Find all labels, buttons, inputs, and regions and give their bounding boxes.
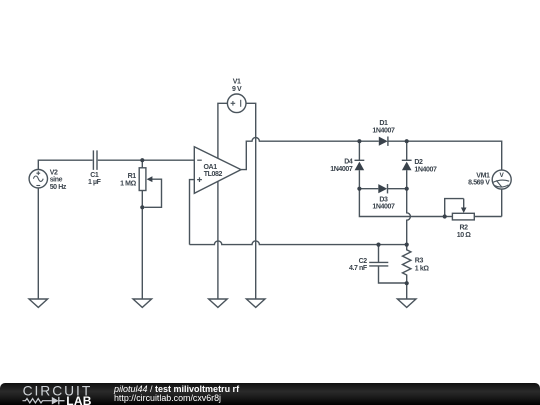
- wire R3 bottom to ground: [406, 283, 408, 299]
- wire bridge output to R2: [359, 189, 444, 217]
- wire op-amp output up and right (hops V1 minus wire): [241, 138, 359, 170]
- ground (V1): [246, 299, 265, 307]
- svg-text:1N4007: 1N4007: [372, 128, 395, 135]
- wire op-amp V- pin to ground: [217, 181, 219, 299]
- node C2/R3 bottom: [405, 281, 409, 285]
- node bridge bottom-right: [405, 187, 409, 191]
- node C2 top: [376, 243, 380, 247]
- node R2 wiper junction: [443, 214, 447, 218]
- svg-text:8.569 V: 8.569 V: [468, 179, 490, 186]
- wire top rail to voltmeter: [407, 141, 502, 170]
- diode D4: [355, 141, 365, 189]
- svg-text:V2: V2: [50, 170, 58, 177]
- svg-text:1 kΩ: 1 kΩ: [415, 265, 430, 272]
- capacitor C2: [369, 245, 407, 283]
- diode D2: [402, 141, 412, 189]
- diode D3: [359, 184, 406, 193]
- resistor R3: [403, 245, 411, 284]
- svg-text:sine: sine: [50, 177, 63, 184]
- footer bar: [0, 383, 540, 405]
- svg-text:50 Hz: 50 Hz: [50, 184, 67, 191]
- CircuitLab logo: [0, 383, 112, 405]
- wire VM1 bottom to R2: [501, 189, 503, 216]
- potentiometer R2: [445, 199, 502, 220]
- ground (V2): [29, 299, 48, 307]
- ground (R3/C2): [397, 299, 416, 307]
- node rail/R3: [405, 243, 409, 247]
- battery V1: [227, 94, 246, 113]
- svg-text:TL082: TL082: [204, 171, 223, 178]
- node R1 wiper junction: [140, 205, 144, 209]
- svg-text:V: V: [499, 172, 504, 179]
- svg-text:1 MΩ: 1 MΩ: [120, 181, 136, 188]
- capacitor C1: [93, 150, 97, 170]
- svg-text:D1: D1: [379, 120, 388, 127]
- footer text: [114, 385, 239, 403]
- svg-text:1N4007: 1N4007: [414, 167, 437, 174]
- logo resistor zigzag: [23, 399, 52, 403]
- svg-text:R1: R1: [128, 173, 137, 180]
- svg-text:1N4007: 1N4007: [372, 204, 395, 211]
- voltmeter VM1: [492, 170, 511, 189]
- svg-text:C1: C1: [90, 172, 99, 179]
- node bridge top-right: [405, 139, 409, 143]
- ground (R1): [133, 299, 152, 307]
- wire feedback/ground rail (hops two verticals): [190, 241, 407, 245]
- svg-text:LAB: LAB: [66, 394, 92, 405]
- svg-text:1 µF: 1 µF: [88, 179, 102, 186]
- wire R1 bottom to ground: [141, 207, 143, 299]
- svg-text:R2: R2: [460, 225, 469, 232]
- voltage source V2: [29, 170, 47, 188]
- node R1 top junction: [140, 158, 144, 162]
- svg-text:D4: D4: [344, 159, 353, 166]
- ground (op-amp V-): [209, 299, 228, 307]
- op-amp OA1 TL082: [194, 147, 241, 194]
- svg-text:10 Ω: 10 Ω: [457, 232, 472, 239]
- svg-text:D3: D3: [379, 196, 388, 203]
- wire V1 minus to ground: [246, 103, 256, 299]
- svg-text:9 V: 9 V: [232, 86, 242, 93]
- node bridge bottom-left: [357, 187, 361, 191]
- diode D1: [359, 137, 406, 146]
- svg-text:R3: R3: [415, 258, 424, 265]
- svg-text:4.7 nF: 4.7 nF: [349, 265, 368, 272]
- svg-text:V1: V1: [233, 78, 241, 85]
- svg-text:D2: D2: [414, 159, 423, 166]
- wire op-amp non-inverting input down: [190, 180, 195, 245]
- wire right bridge leg down (hops R2 wire): [407, 189, 411, 245]
- svg-text:1N4007: 1N4007: [330, 166, 353, 173]
- wire V2 top to C1: [38, 160, 92, 169]
- svg-text:VM1: VM1: [476, 172, 490, 179]
- resistor R1 potentiometer: [139, 160, 161, 207]
- wire V1 plus to op-amp V+ pin: [218, 103, 228, 158]
- wire V2 bottom to ground: [37, 188, 39, 299]
- node bridge top-left: [357, 139, 361, 143]
- wire C1 to op-amp inverting input: [98, 159, 195, 161]
- logo diode: [52, 397, 59, 405]
